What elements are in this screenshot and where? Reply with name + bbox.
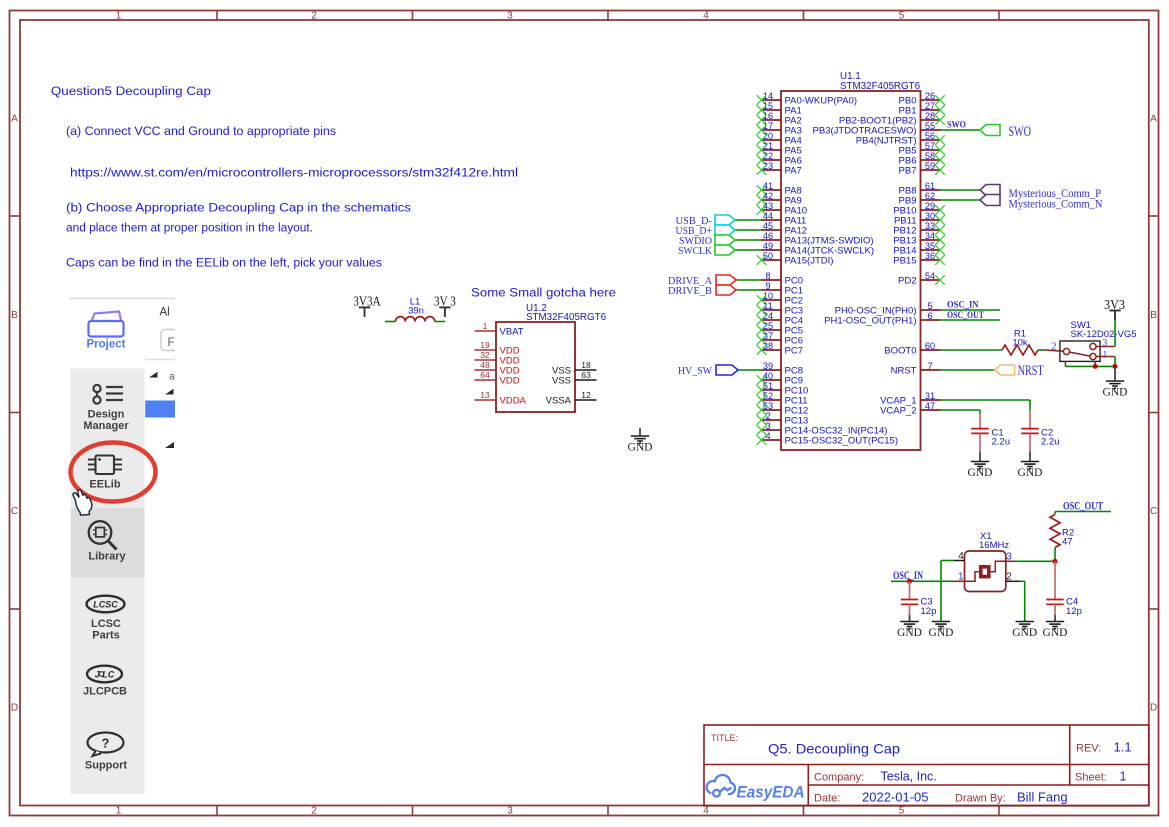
svg-text:1: 1 [116,806,122,817]
title block [704,725,1149,806]
svg-text:11: 11 [763,301,773,311]
net flag DRIVE_B [716,285,736,295]
svg-text:29: 29 [925,201,935,211]
svg-text:SWO: SWO [947,121,966,131]
ground GND at C3 [900,622,918,629]
U1.2 pin 18 VSS [552,360,597,377]
IC U1.1 STM32F405RGT6 body [781,91,921,450]
svg-text:3: 3 [507,806,513,817]
U1.1 pin 9 PC1 [761,281,803,297]
svg-text:12p: 12p [921,606,937,617]
svg-text:57: 57 [925,141,935,151]
U1.1 pin 26 PB0 [899,91,945,107]
U1.1 pin 40 PC9 [757,371,803,387]
UI Library icon [89,521,117,549]
wire USB_D- to pin [735,219,761,221]
svg-text:19: 19 [480,340,490,350]
svg-text:C: C [1150,506,1157,517]
svg-text:GND: GND [968,467,993,479]
svg-text:PB15: PB15 [893,256,916,267]
UI tree triangles [149,372,158,378]
wire R1 to SW1 pin 2 [1038,349,1045,351]
svg-text:55: 55 [925,121,935,131]
svg-text:GND: GND [1103,387,1128,399]
UI search box (truncated) [161,330,175,351]
wire BOOT0 to R1 [941,349,1003,351]
svg-text:47: 47 [925,401,935,411]
svg-text:Support: Support [85,760,127,772]
EasyEDA UI screenshot: left panel [69,281,175,794]
C4 lead to ground [1054,604,1056,615]
svg-text:Al: Al [160,307,170,319]
svg-text:10: 10 [763,291,773,301]
wire NRST pin to flag [941,369,995,371]
svg-text:7: 7 [927,361,932,371]
svg-text:GND: GND [628,442,653,454]
svg-text:2: 2 [1006,572,1012,583]
svg-text:9: 9 [765,281,770,291]
wire OSC_IN to X1 pin 1 [891,580,954,582]
svg-text:56: 56 [925,131,935,141]
U1.1 pin 21 PA5 [757,141,802,157]
wire OSC_OUT at R2 top [1055,511,1111,513]
svg-text:Parts: Parts [92,630,120,642]
capacitor C2 [1029,411,1031,429]
svg-text:21: 21 [763,141,773,151]
svg-text:41: 41 [763,181,773,191]
resistor R1 [1002,345,1038,355]
svg-text:GND: GND [897,627,922,639]
U1.1 pin 57 PB5 [899,141,945,157]
svg-text:24: 24 [763,311,773,321]
IC U1.2 STM32F405RGT6 body [496,322,575,412]
svg-text:A: A [1150,114,1157,125]
svg-text:Q5. Decoupling Cap: Q5. Decoupling Cap [768,742,900,757]
wire X1 pin 2 to ground [1020,580,1025,582]
svg-text:NRST: NRST [1018,363,1044,379]
svg-text:A: A [11,114,18,125]
svg-text:25: 25 [763,321,773,331]
svg-text:49: 49 [763,241,773,251]
svg-text:2: 2 [311,11,317,22]
X1 pin 2 [1006,580,1020,582]
U1.1 pin 33 PB12 [893,221,945,237]
svg-text:2: 2 [1052,342,1057,353]
svg-text:HV_SW: HV_SW [678,366,712,377]
SW1 pin 1 lead [1096,356,1115,358]
U1.1 pin 52 PC11 [757,391,808,407]
svg-text:Design: Design [88,409,125,421]
U1.1 pin 59 PB7 [899,161,945,177]
svg-text:(b) Choose Appropriate Decoupl: (b) Choose Appropriate Decoupling Cap in… [66,201,411,215]
svg-text:54: 54 [925,271,935,281]
UI tree separator [145,359,175,361]
svg-text:J LC: J LC [95,670,115,680]
svg-text:1: 1 [1103,350,1108,360]
net flag NRST [995,365,1015,375]
net flag Mysterious_Comm_N [980,195,1000,206]
UI Design Manager icon [93,385,123,404]
U1.1 pin 10 PC2 [757,291,803,307]
U1.1 pin 45 PA12 [761,221,807,237]
svg-text:PB7: PB7 [899,166,917,177]
svg-text:PC15-OSC32_OUT(PC15): PC15-OSC32_OUT(PC15) [785,436,899,447]
svg-text:VDD: VDD [500,376,520,387]
svg-text:https://www.st.com/en/microcon: https://www.st.com/en/microcontrollers-m… [70,166,518,180]
capacitor C4 [1054,561,1056,599]
SW1 pin 3 lead [1096,346,1115,348]
C1 lead to ground [979,433,981,451]
net flag HV_SW [716,365,738,375]
U1.2 pin 19 VDD [475,340,520,357]
svg-text:16MHz: 16MHz [979,540,1009,551]
wire at L1 left [385,321,396,323]
svg-text:PD2: PD2 [898,276,916,287]
wire R2 to crystal pin 3 [1054,548,1056,562]
U1.1 pin 27 PB1 [899,101,945,117]
wire SW1 pin 1 down to ground net [1114,357,1116,367]
svg-text:36: 36 [925,251,935,261]
U1.1 pin 42 PA9 [757,191,802,207]
U1.1 pin 11 PC3 [757,301,803,317]
wire pin 61 to Mysterious_Comm_P flag [941,189,981,191]
svg-text:Tesla, Inc.: Tesla, Inc. [881,770,937,784]
svg-text:64: 64 [480,370,490,380]
UI Support icon [88,733,124,753]
svg-text:REV:: REV: [1076,743,1101,755]
svg-text:51: 51 [763,381,773,391]
svg-text:2022-01-05: 2022-01-05 [862,790,929,805]
U1.2 pin 63 VSS [552,370,597,387]
svg-text:16: 16 [763,111,773,121]
wire pin 55 to SWO flag [941,129,981,131]
svg-text:45: 45 [763,221,773,231]
svg-text:35: 35 [925,241,935,251]
UI selected tree row [145,401,175,418]
wire DRIVE_A to pin [736,279,761,281]
U1.1 pin 41 PA8 [757,181,802,197]
U1.1 pin 28 PB2-BOOT1(PB2) [839,111,945,127]
svg-text:D: D [1150,703,1157,714]
svg-text:STM32F405RGT6: STM32F405RGT6 [840,81,921,92]
svg-text:53: 53 [763,401,773,411]
svg-text:1: 1 [116,11,122,22]
UI EELib icon [88,456,122,475]
svg-text:B: B [11,310,18,321]
U1.2 pin 48 VDD [475,360,520,377]
svg-text:Company:: Company: [814,772,864,784]
svg-text:43: 43 [763,201,773,211]
svg-text:22: 22 [763,151,773,161]
svg-text:33: 33 [925,221,935,231]
wire SWCLK to pin [735,249,761,251]
wire pin 62 to Mysterious_Comm_N flag [941,199,981,201]
svg-text:4: 4 [703,11,709,22]
svg-text:GND: GND [1043,627,1068,639]
svg-text:F: F [168,337,175,349]
U1.1 pin 14 PA0-WKUP(PA0) [757,91,857,107]
svg-text:1.1: 1.1 [1114,740,1132,755]
U1.1 pin 58 PB6 [899,151,945,167]
SW1 mounting stubs [1064,361,1066,366]
svg-text:31: 31 [925,391,935,401]
svg-text:SWO: SWO [1009,124,1032,140]
junction OSC_IN/C3 [907,579,912,584]
svg-text:EasyEDA: EasyEDA [737,784,805,802]
U1.1 pin 49 PA14(JTCK-SWCLK) [761,241,874,257]
svg-text:OSC_OUT: OSC_OUT [947,311,985,321]
net flag USB_D+ [715,225,735,235]
U1.2 pin 32 VDD [475,350,520,367]
resistor R2 [1050,515,1060,548]
ground GND at C1 [971,462,989,469]
svg-text:38: 38 [763,341,773,351]
svg-text:Question5 Decoupling Cap: Question5 Decoupling Cap [51,84,211,98]
U1.2 pin 13 VDDA [475,390,527,407]
svg-text:OSC_IN: OSC_IN [947,301,979,311]
U1.1 pin 6 PH1-OSC_OUT(PH1) [824,311,940,327]
ground GND at SW1 [1114,366,1116,381]
svg-text:DRIVE_B: DRIVE_B [668,286,712,297]
svg-text:Drawn By:: Drawn By: [955,793,1006,805]
svg-text:59: 59 [925,161,935,171]
C2 lead to ground [1029,433,1031,451]
U1.1 pin 46 PA13(JTMS-SWDIO) [761,231,874,247]
svg-text:PA15(JTDI): PA15(JTDI) [785,256,834,267]
svg-text:44: 44 [763,211,773,221]
wire at L1 right [435,321,446,323]
power flag 3V 3 [434,295,456,317]
svg-text:50: 50 [763,251,773,261]
svg-text:20: 20 [763,131,773,141]
svg-text:NRST: NRST [891,366,917,377]
svg-text:46: 46 [763,231,773,241]
U1.2 pin 1 VBAT [475,321,524,338]
svg-text:8: 8 [765,271,770,281]
svg-text:?: ? [102,736,110,751]
capacitor C1 [979,413,981,428]
svg-text:OSC_OUT: OSC_OUT [1063,501,1103,513]
net flag Mysterious_Comm_P [980,185,1000,196]
U1.1 pin 62 PB9 [899,191,941,207]
svg-text:Mysterious_Comm_N: Mysterious_Comm_N [1009,198,1104,210]
svg-text:and place them at proper posit: and place them at proper position in the… [66,221,313,235]
hand cursor [73,490,92,515]
U1.1 pin 5 PH0-OSC_IN(PH0) [835,301,941,317]
svg-text:B: B [1150,310,1157,321]
svg-text:62: 62 [925,191,935,201]
svg-text:2: 2 [311,806,317,817]
U1.1 pin 51 PC10 [757,381,809,397]
svg-text:STM32F405RGT6: STM32F405RGT6 [526,312,607,323]
svg-text:Project: Project [87,339,126,351]
U1.1 pin 35 PB14 [893,241,945,257]
wire 3V3 to SW1 pin 3 [1114,319,1116,347]
svg-text:C: C [11,506,18,517]
U1.1 pin 31 VCAP_1 [880,391,940,407]
ground GND at C4 [1046,622,1064,629]
svg-text:52: 52 [763,391,773,401]
svg-text:10k: 10k [1012,338,1028,349]
svg-text:60: 60 [925,341,935,351]
U1.1 pin 30 PB11 [894,211,945,227]
svg-text:58: 58 [925,151,935,161]
svg-text:2.2u: 2.2u [1041,437,1060,448]
U1.1 pin 16 PA2 [757,111,802,127]
U1.1 pin 37 PC6 [757,331,803,347]
U1.1 pin 29 PB10 [893,201,945,217]
X1 pin 3 [1006,560,1015,562]
svg-text:13: 13 [480,390,490,400]
svg-text:14: 14 [763,91,773,101]
svg-text:40: 40 [763,371,773,381]
svg-text:Library: Library [88,551,126,563]
net flag SWDIO [715,235,735,245]
svg-text:3: 3 [507,11,513,22]
U1.1 pin 25 PC5 [757,321,803,337]
wire VCAP_1 to C2 [941,399,1031,401]
svg-text:GND: GND [1018,467,1043,479]
svg-text:GND: GND [929,627,954,639]
svg-text:28: 28 [925,111,935,121]
svg-text:12: 12 [581,390,591,400]
svg-text:BOOT0: BOOT0 [884,346,916,357]
U1.1 pin 39 PC8 [761,361,803,377]
UI JLCPCB logo [87,666,122,683]
svg-text:37: 37 [763,331,773,341]
svg-text:VCAP_2: VCAP_2 [880,406,916,417]
svg-text:3: 3 [1103,339,1108,349]
net flag DRIVE_A [716,275,736,285]
U1.2 pin 12 VSSA [546,390,597,407]
svg-text:47: 47 [1062,537,1073,548]
U1.1 pin 24 PC4 [757,311,803,327]
svg-text:Sheet:: Sheet: [1075,772,1107,784]
junction R2/C4/X1 [1053,559,1058,564]
svg-text:63: 63 [581,370,591,380]
ground GND at X1 pin 4 [932,622,950,629]
svg-text:1: 1 [483,321,488,331]
U1.1 pin 61 PB8 [899,181,941,197]
svg-text:1: 1 [1120,770,1127,784]
svg-text:5: 5 [899,806,905,817]
U1.1 pin 38 PC7 [757,341,803,357]
svg-text:(a) Connect VCC and Ground to: (a) Connect VCC and Ground to appropriat… [66,124,336,138]
UI sidebar background [71,369,145,795]
junction at SW1/GND [1113,364,1118,369]
wire below SW1 (ground net) [1065,365,1115,367]
svg-text:Manager: Manager [83,420,129,432]
wire DRIVE_B to pin [736,289,761,291]
svg-text:TITLE:: TITLE: [711,733,738,743]
svg-text:15: 15 [763,101,773,111]
UI Project icon [89,312,124,337]
svg-text:18: 18 [581,360,591,370]
svg-text:61: 61 [925,181,935,191]
X1 pin 4 [954,560,965,562]
svg-text:VSS: VSS [552,376,571,387]
U1.1 pin 44 PA11 [761,211,806,227]
UI Library selected background [71,508,145,578]
svg-text:48: 48 [480,360,490,370]
svg-text:Some Small gotcha here: Some Small gotcha here [471,286,616,300]
U1.1 pin 34 PB13 [893,231,945,247]
svg-text:12p: 12p [1066,606,1082,617]
svg-text:39: 39 [763,361,773,371]
svg-text:Bill Fang: Bill Fang [1017,790,1068,805]
svg-text:Caps can be find in the EELib: Caps can be find in the EELib on the lef… [66,256,382,270]
red highlight ellipse around EELib [71,443,156,502]
svg-text:PC7: PC7 [785,346,803,357]
wire pin 6 OSC_OUT stub [941,319,1001,321]
svg-text:LCSC: LCSC [91,618,121,630]
svg-text:4: 4 [958,551,964,562]
net flag SWCLK [715,245,735,255]
U1.1 pin 20 PA4 [757,131,802,147]
svg-text:42: 42 [763,191,773,201]
U1.1 pin 2 PC13 [757,411,809,427]
svg-text:23: 23 [763,161,773,171]
ground GND (floating near U1.2) [639,428,641,436]
U1.1 pin 56 PB4(NJTRST) [856,131,945,147]
inductor L1 [396,317,435,322]
svg-text:GND: GND [1012,627,1037,639]
crystal X1 body [965,551,1006,592]
UI separator line [70,298,175,300]
svg-text:3: 3 [1006,552,1012,563]
svg-text:30: 30 [925,211,935,221]
power flag 3V3A [353,295,381,317]
svg-text:Date:: Date: [814,793,840,805]
wire VCAP_2 to C1 [941,409,981,411]
svg-text:5: 5 [899,11,905,22]
svg-text:27: 27 [925,101,935,111]
svg-text:LCSC: LCSC [93,600,118,610]
U1.1 pin 53 PC12 [757,401,809,417]
U1.1 pin 8 PC0 [761,271,803,287]
svg-text:5: 5 [927,301,932,311]
net flag USB_D- [715,215,735,225]
svg-text:JLCPCB: JLCPCB [83,686,127,698]
UI LCSC logo [87,596,125,613]
U1.1 pin 4 PC15-OSC32_OUT(PC15) [757,431,898,447]
wire X1 pin 4 to ground [941,560,954,562]
wire HV_SW to pin PC8 [738,369,761,371]
wire USB_D+ to pin [735,229,761,231]
U1.1 pin 17 PA3 [757,121,802,137]
ground GND at C2 [1021,462,1039,469]
U1.1 pin 36 PB15 [893,251,945,267]
svg-text:VSSA: VSSA [546,396,572,407]
svg-text:D: D [11,703,18,714]
U1.1 pin 54 PD2 [898,271,945,287]
svg-text:32: 32 [480,350,490,360]
U1.1 pin 43 PA10 [757,201,807,217]
EasyEDA logo [707,775,735,797]
svg-text:SWCLK: SWCLK [678,246,712,257]
U1.1 pin 60 BOOT0 [884,341,940,357]
svg-text:4: 4 [703,806,709,817]
U1.1 pin 15 PA1 [757,101,802,117]
C3 lead to ground [909,604,911,615]
ground GND at X1 pin 2 [1016,622,1034,629]
U1.2 pin 64 VDD [475,370,520,387]
svg-text:6: 6 [927,311,932,321]
wire pin 5 OSC_IN stub [941,309,1001,311]
X1 pin 1 [954,580,965,582]
U1.1 pin 55 PB3(JTDOTRACESWO) [813,121,941,137]
svg-text:a: a [169,372,175,383]
